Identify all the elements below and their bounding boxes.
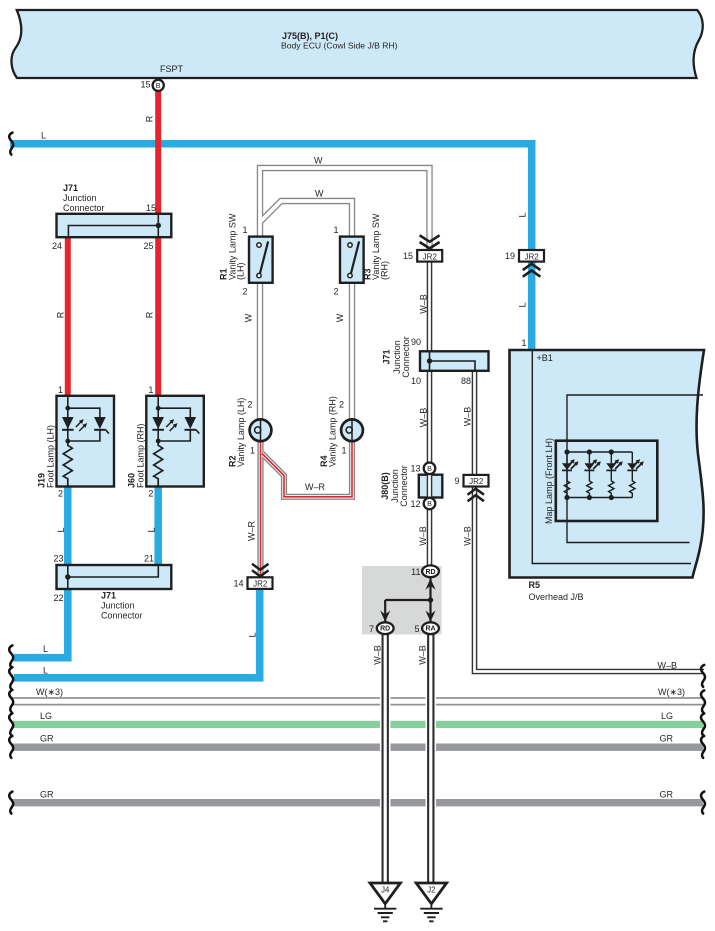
terminal 5 RA	[422, 622, 439, 634]
terminal 7 RD	[377, 622, 394, 634]
svg-text:W–B: W–B	[373, 645, 383, 665]
svg-text:88: 88	[461, 376, 471, 386]
svg-text:W(∗3): W(∗3)	[658, 687, 685, 697]
shield gray box	[362, 566, 442, 635]
svg-text:2: 2	[333, 287, 338, 297]
svg-text:J2: J2	[427, 886, 435, 895]
svg-text:L: L	[518, 302, 528, 307]
svg-text:J80(B): J80(B)	[380, 472, 390, 500]
wire L blue from J71 pin22 to left break	[14, 588, 68, 658]
svg-text:L: L	[43, 666, 48, 676]
junction connector J80(B)	[419, 463, 443, 510]
connector 15 JR2	[417, 235, 442, 261]
svg-text:J4: J4	[381, 886, 390, 895]
svg-text:2: 2	[242, 287, 247, 297]
white halos for ground wires crossing buses	[385, 640, 431, 880]
svg-text:JR2: JR2	[423, 252, 438, 261]
map lamp box	[556, 441, 658, 521]
svg-text:25: 25	[143, 241, 153, 251]
svg-text:90: 90	[411, 337, 421, 347]
svg-text:23: 23	[53, 554, 63, 564]
bus wire W(+3) horizontal	[12, 698, 703, 705]
ground J4	[370, 883, 400, 921]
ECU banner J75(B), P1(C) Body ECU	[11, 10, 702, 78]
svg-text:22: 22	[53, 593, 63, 603]
svg-text:(LH): (LH)	[236, 262, 246, 280]
svg-text:Connector: Connector	[399, 465, 409, 507]
svg-text:+B1: +B1	[537, 353, 553, 363]
svg-text:24: 24	[52, 241, 62, 251]
connector 14 JR2	[248, 564, 273, 589]
svg-text:GR: GR	[660, 734, 674, 744]
svg-text:2: 2	[247, 400, 252, 410]
map lamp LED branch 3	[610, 452, 612, 463]
map lamp LED branch 1	[566, 452, 568, 463]
svg-text:2: 2	[339, 400, 344, 410]
svg-text:L: L	[43, 644, 48, 654]
wire L blue foot lamp LH to J71	[64, 486, 72, 566]
svg-text:13: 13	[410, 464, 420, 474]
junction connector J71 top	[57, 214, 172, 237]
LED J19	[62, 417, 74, 429]
svg-text:L: L	[56, 527, 66, 532]
svg-text:10: 10	[411, 376, 421, 386]
svg-text:Body ECU (Cowl Side J/B RH): Body ECU (Cowl Side J/B RH)	[281, 41, 398, 51]
svg-text:B: B	[427, 499, 432, 508]
wire W-B main vertical 15JR2 to 11RD	[430, 260, 705, 672]
bus wire GR2 horizontal	[12, 799, 703, 806]
svg-text:15: 15	[146, 203, 156, 213]
lamp R4 Vanity Lamp (RH)	[341, 419, 363, 441]
map lamp buses	[567, 451, 632, 453]
map lamp LED branch 2	[588, 452, 590, 463]
svg-text:W(∗3): W(∗3)	[36, 687, 63, 697]
svg-text:Overhead J/B: Overhead J/B	[529, 592, 584, 602]
svg-text:L: L	[518, 212, 528, 217]
pin 12 B	[424, 498, 436, 510]
resistor J60	[154, 441, 163, 487]
svg-text:L: L	[147, 527, 157, 532]
svg-text:JR2: JR2	[469, 477, 484, 486]
LED J60	[152, 417, 164, 429]
svg-text:W: W	[244, 313, 254, 322]
svg-text:Vanity Lamp (RH): Vanity Lamp (RH)	[328, 396, 338, 467]
svg-text:LG: LG	[661, 711, 673, 721]
junction connector J71 bottom	[57, 565, 172, 589]
connector 19 JR2	[519, 250, 544, 277]
svg-text:W: W	[335, 313, 345, 322]
diode J60	[185, 417, 197, 429]
svg-text:Connector: Connector	[401, 336, 411, 378]
wire L blue from 14 JR2 to left break	[14, 588, 260, 678]
arrow down right	[425, 611, 435, 622]
svg-text:J71: J71	[382, 349, 392, 364]
foot lamp J19 (LH)	[57, 396, 115, 487]
svg-text:GR: GR	[660, 790, 674, 800]
wire break symbols left edge	[9, 133, 13, 814]
bus wire LG horizontal	[12, 721, 703, 728]
junction connector J71 right	[420, 351, 489, 371]
diode J19	[94, 417, 106, 429]
svg-text:W–B: W–B	[463, 526, 473, 546]
svg-text:W–B: W–B	[419, 294, 429, 314]
svg-text:W–B: W–B	[419, 408, 429, 428]
svg-text:1: 1	[333, 225, 338, 235]
svg-text:J71: J71	[101, 591, 116, 601]
svg-text:L: L	[41, 131, 46, 141]
wire L blue from ECU bus to 19 JR2 and R5	[10, 144, 532, 350]
svg-text:GR: GR	[40, 790, 54, 800]
svg-text:14: 14	[233, 579, 243, 589]
svg-text:J75(B), P1(C): J75(B), P1(C)	[282, 31, 338, 41]
svg-text:1: 1	[250, 446, 255, 456]
svg-text:Foot Lamp (RH): Foot Lamp (RH)	[136, 423, 146, 488]
foot lamp J60 (RH)	[146, 396, 204, 487]
svg-text:15: 15	[140, 80, 150, 90]
connector 9 JR2	[464, 475, 489, 501]
arrow up	[425, 579, 435, 590]
ground J2	[416, 883, 446, 921]
wire W-B grounds verticals	[385, 634, 431, 884]
svg-text:Junction: Junction	[101, 601, 135, 611]
svg-text:Junction: Junction	[63, 193, 97, 203]
wire W-R from R2/R4 to 14 JR2	[261, 441, 353, 578]
svg-text:Connector: Connector	[63, 203, 105, 213]
pin 13 B	[424, 463, 436, 475]
svg-text:GR: GR	[40, 734, 54, 744]
svg-text:RD: RD	[425, 569, 435, 576]
wire L blue foot lamp RH to J71	[154, 486, 162, 566]
svg-text:JR2: JR2	[524, 252, 539, 261]
svg-text:19: 19	[505, 251, 515, 261]
svg-text:W–B: W–B	[418, 526, 428, 546]
svg-text:W–R: W–R	[305, 482, 326, 492]
svg-text:JR2: JR2	[253, 580, 268, 589]
svg-text:7: 7	[369, 624, 374, 634]
svg-text:W: W	[315, 189, 324, 199]
svg-text:1: 1	[148, 385, 153, 395]
svg-text:RD: RD	[380, 626, 390, 633]
terminal 11 RD	[422, 565, 439, 577]
svg-text:2: 2	[148, 489, 153, 499]
svg-text:1: 1	[521, 338, 526, 348]
svg-text:RA: RA	[425, 626, 435, 633]
svg-text:W–B: W–B	[463, 407, 473, 427]
svg-text:FSPT: FSPT	[160, 64, 184, 74]
resistor J19	[63, 441, 72, 487]
svg-text:LG: LG	[40, 711, 52, 721]
svg-text:Map Lamp (Front LH): Map Lamp (Front LH)	[544, 438, 554, 524]
svg-text:2: 2	[58, 489, 63, 499]
svg-text:L: L	[248, 632, 258, 637]
svg-text:5: 5	[414, 624, 419, 634]
svg-text:R: R	[56, 311, 66, 318]
svg-text:9: 9	[454, 476, 459, 486]
arrow down left	[380, 611, 390, 622]
switch R1 Vanity Lamp SW (LH)	[249, 237, 273, 283]
overhead J/B R5	[510, 350, 705, 578]
svg-text:R: R	[145, 115, 155, 122]
relay block internals: arrows and terminals	[377, 565, 439, 634]
svg-text:W–B: W–B	[658, 661, 678, 671]
svg-text:15: 15	[403, 251, 413, 261]
lamp R2 Vanity Lamp (LH)	[250, 419, 272, 441]
svg-text:1: 1	[242, 225, 247, 235]
wire W from R1 pin1 to 15 JR2 (outline)	[260, 168, 430, 420]
wire R red J71 pin25 to foot lamp RH	[155, 236, 161, 397]
svg-text:(RH): (RH)	[380, 261, 390, 280]
svg-text:1: 1	[58, 385, 63, 395]
svg-text:12: 12	[410, 499, 420, 509]
svg-text:Vanity Lamp (LH): Vanity Lamp (LH)	[236, 398, 246, 467]
svg-text:R5: R5	[529, 580, 541, 590]
svg-text:Foot Lamp (LH): Foot Lamp (LH)	[46, 425, 56, 488]
svg-text:B: B	[427, 464, 432, 473]
switch R3 Vanity Lamp SW (RH)	[340, 237, 364, 283]
map lamp LED branch 4	[631, 452, 633, 463]
bus wire GR horizontal	[12, 744, 703, 751]
svg-text:11: 11	[411, 567, 420, 577]
wire R red from FSPT to J71	[155, 90, 161, 215]
svg-text:J71: J71	[63, 183, 78, 193]
svg-text:W: W	[314, 156, 323, 166]
svg-text:B: B	[156, 81, 161, 90]
svg-text:1: 1	[341, 446, 346, 456]
ECU terminal 15 B FSPT	[153, 80, 164, 91]
svg-text:R: R	[145, 311, 155, 318]
svg-text:Connector: Connector	[101, 611, 143, 621]
svg-text:21: 21	[144, 554, 154, 564]
wire break symbols right edge	[701, 665, 705, 814]
svg-text:W–B: W–B	[418, 645, 428, 665]
svg-text:W–R: W–R	[247, 521, 257, 542]
wire R red J71 pin24 to foot lamp LH	[65, 236, 71, 397]
